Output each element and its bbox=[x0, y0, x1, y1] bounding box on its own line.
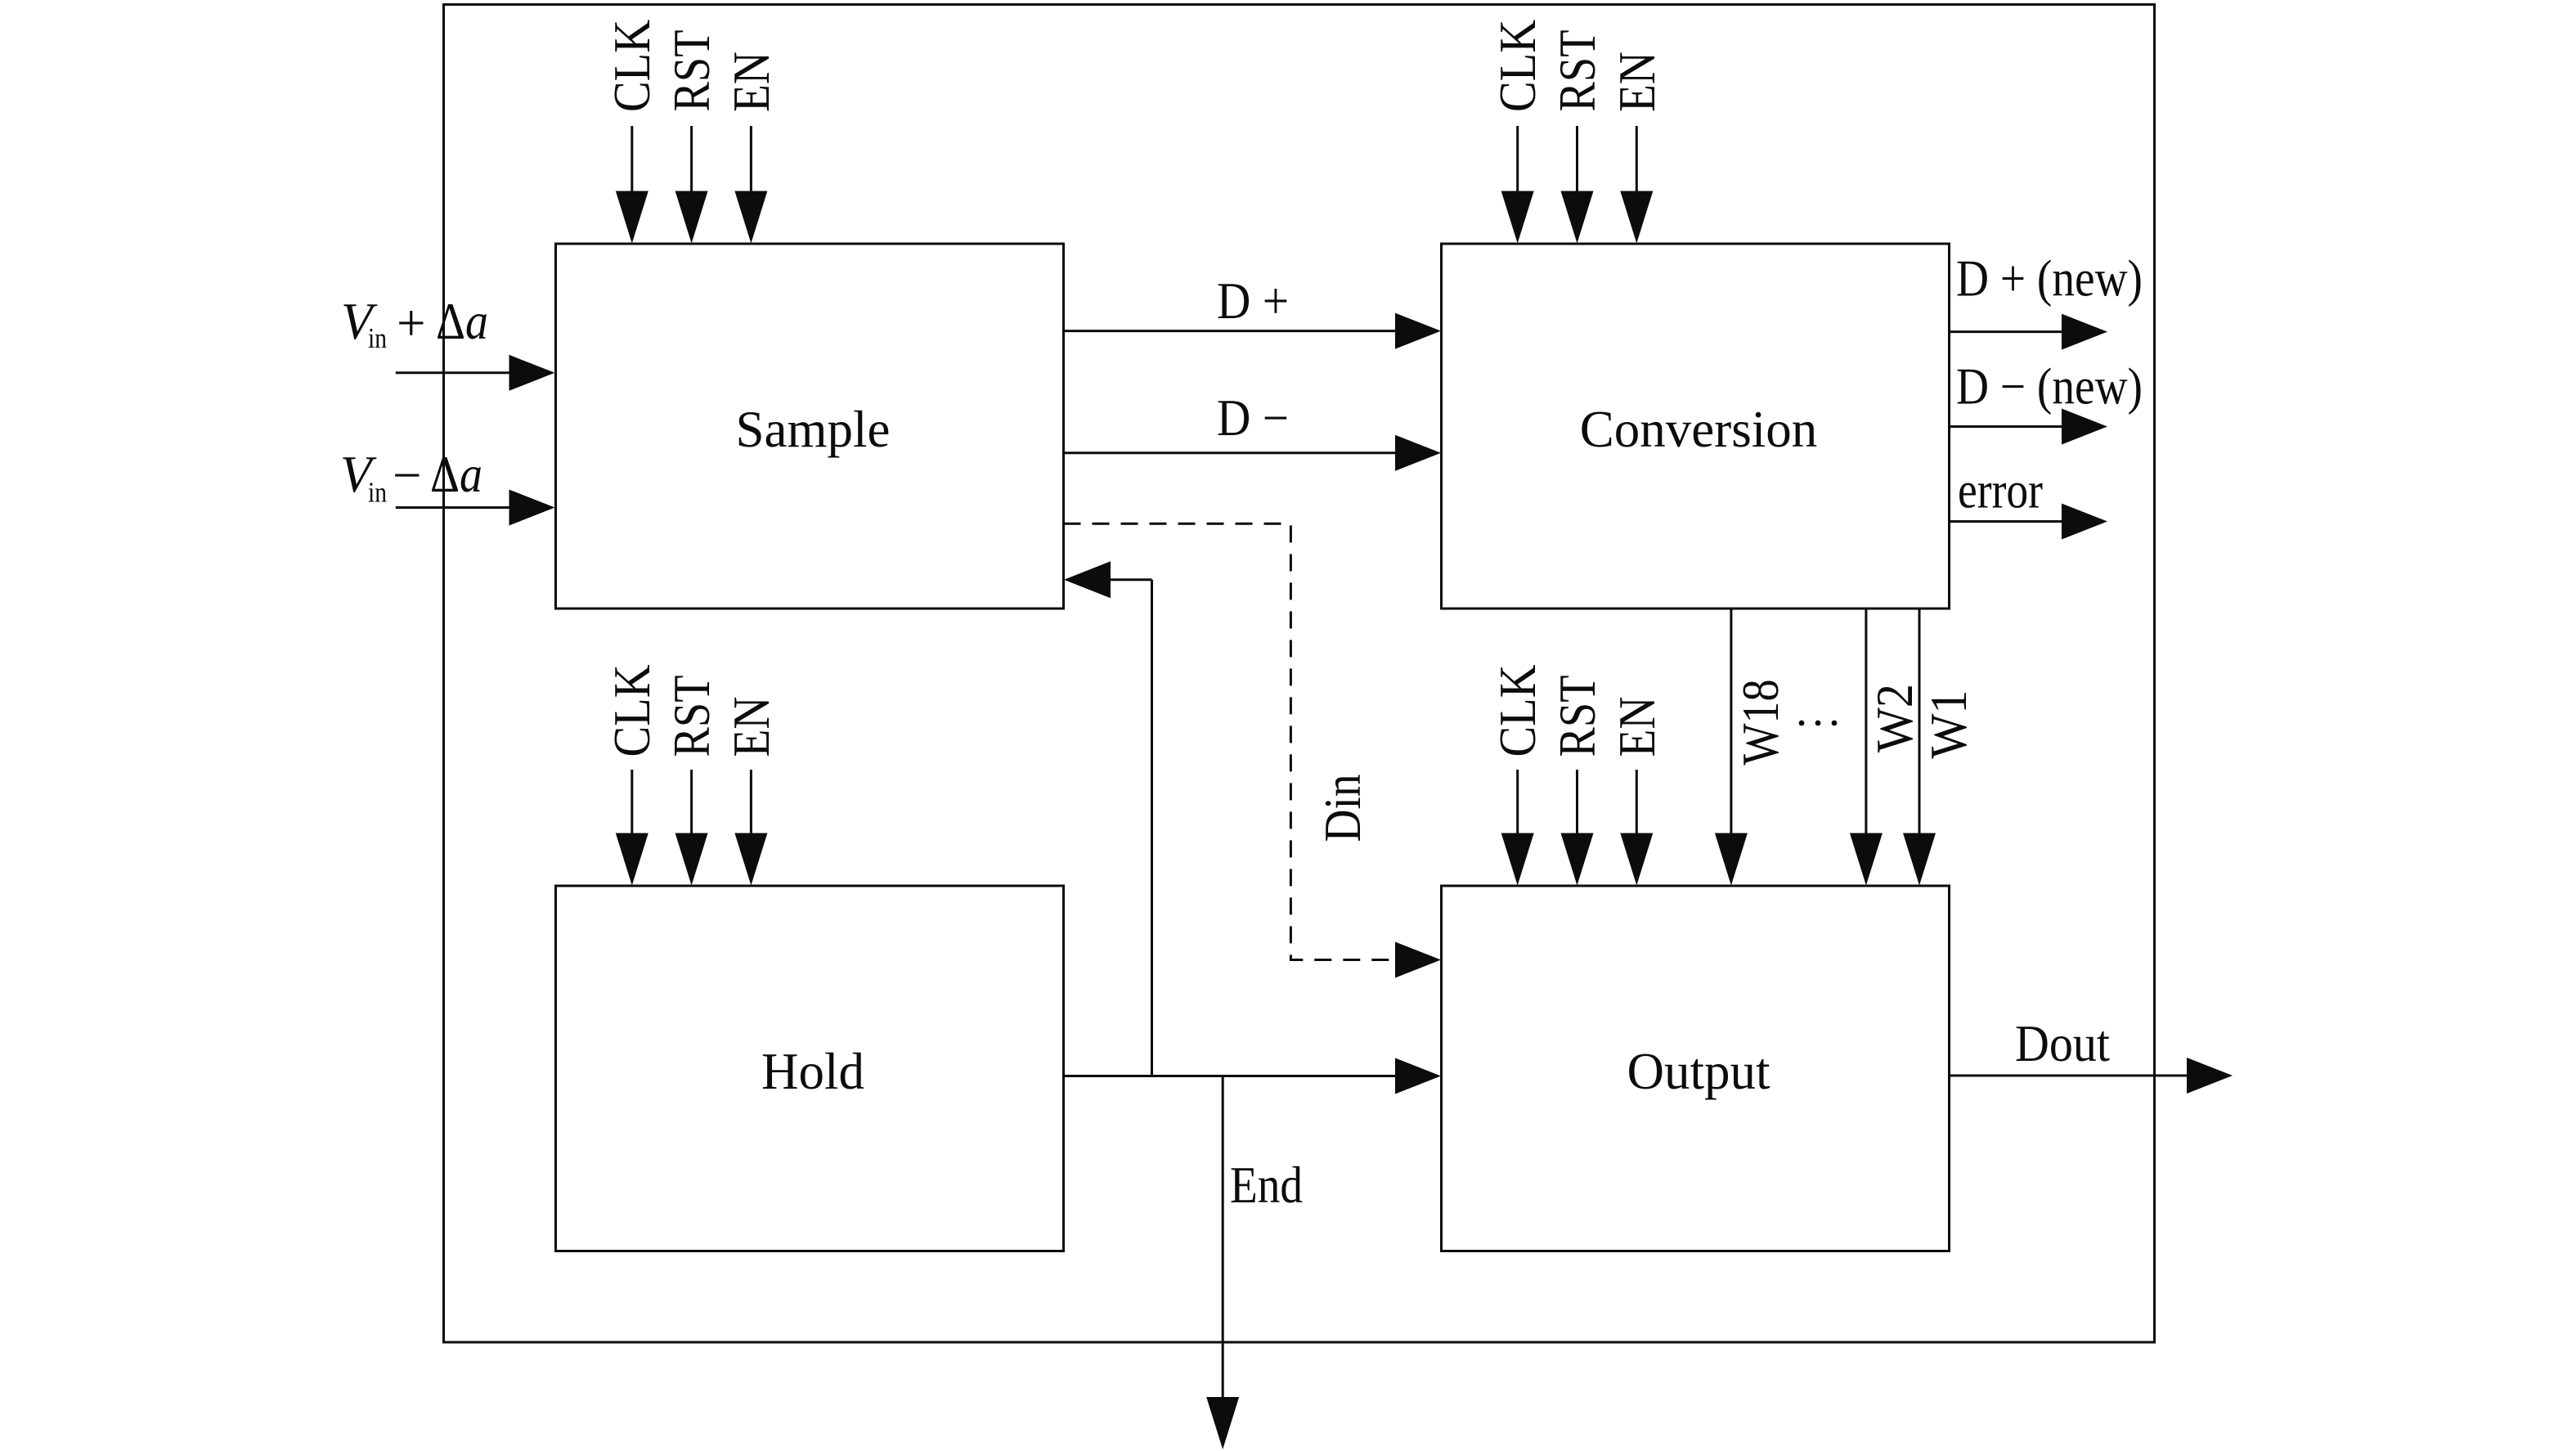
svg-text:EN: EN bbox=[1609, 697, 1666, 757]
wire feedback horizontal into Sample bbox=[1107, 578, 1152, 581]
svg-text:−: − bbox=[393, 447, 422, 504]
arrowhead CLK Sample bbox=[616, 191, 648, 244]
svg-text:Conversion: Conversion bbox=[1580, 401, 1817, 458]
wire EN into Hold bbox=[750, 770, 752, 837]
svg-text:error: error bbox=[1958, 462, 2043, 519]
wire RST into Conversion bbox=[1576, 126, 1578, 195]
arrowhead input Vin+da bbox=[509, 355, 555, 391]
wire EN into Sample bbox=[750, 126, 752, 195]
arrowhead W2 bbox=[1850, 833, 1883, 886]
svg-text:Δa: Δa bbox=[436, 293, 488, 350]
wire RST into Output bbox=[1576, 770, 1578, 837]
arrowhead error bbox=[2062, 504, 2107, 540]
svg-text:D +: D + bbox=[1217, 272, 1289, 330]
wire input Vin-da bbox=[396, 506, 513, 509]
wire Hold to Output bbox=[1064, 1075, 1396, 1077]
arrowhead W1 bbox=[1903, 833, 1936, 886]
arrowhead RST Output bbox=[1561, 833, 1594, 886]
svg-text:Dout: Dout bbox=[2015, 1015, 2110, 1072]
svg-text:EN: EN bbox=[1609, 52, 1666, 112]
wire feedback vertical bbox=[1151, 580, 1153, 1076]
svg-text:W1: W1 bbox=[1920, 690, 1977, 759]
svg-text:End: End bbox=[1230, 1157, 1303, 1214]
svg-text:RST: RST bbox=[1549, 676, 1606, 757]
wire EN into Output bbox=[1636, 770, 1638, 837]
wire W1 Conversion to Output bbox=[1919, 609, 1921, 837]
wire W18 Conversion to Output bbox=[1730, 609, 1732, 837]
wire Dout out of Output bbox=[1950, 1075, 2191, 1077]
arrowhead RST Hold bbox=[675, 833, 708, 886]
wire Din dashed Sample to Output bbox=[1064, 523, 1393, 959]
svg-text:W2: W2 bbox=[1866, 684, 1923, 752]
wire EN into Conversion bbox=[1636, 126, 1638, 195]
wire D-(new) out of Conversion bbox=[1950, 425, 2066, 428]
svg-text:D −: D − bbox=[1217, 389, 1289, 447]
arrowhead Din into Output bbox=[1395, 942, 1441, 978]
svg-text:EN: EN bbox=[723, 697, 780, 757]
svg-text:CLK: CLK bbox=[604, 20, 661, 112]
wire RST into Hold bbox=[690, 770, 693, 837]
arrowhead W18 bbox=[1715, 833, 1748, 886]
svg-text:D − (new): D − (new) bbox=[1956, 358, 2143, 416]
arrowhead EN Output bbox=[1620, 833, 1653, 886]
arrowhead EN Conversion bbox=[1620, 191, 1653, 244]
wire D+(new) out of Conversion bbox=[1950, 330, 2066, 333]
svg-text:Δa: Δa bbox=[430, 446, 482, 503]
junction dots of ellipsis between W18 and W2 bbox=[1799, 721, 1805, 726]
arrowhead End bbox=[1206, 1397, 1239, 1449]
svg-text:Hold: Hold bbox=[761, 1043, 864, 1100]
arrowhead CLK Conversion bbox=[1501, 191, 1534, 244]
wire CLK into Hold bbox=[631, 770, 633, 837]
arrowhead D+ bbox=[1395, 313, 1441, 349]
svg-text:RST: RST bbox=[663, 30, 720, 112]
svg-text:W18: W18 bbox=[1732, 680, 1789, 766]
svg-text:+: + bbox=[397, 294, 426, 352]
svg-text:in: in bbox=[368, 322, 387, 354]
block Sample bbox=[556, 244, 1064, 609]
block Output bbox=[1442, 886, 1950, 1251]
svg-text:RST: RST bbox=[1549, 30, 1606, 112]
arrowhead Dout bbox=[2187, 1058, 2233, 1094]
wire D- Sample to Conversion bbox=[1064, 451, 1399, 454]
wire CLK into Conversion bbox=[1516, 126, 1519, 195]
block Hold bbox=[556, 886, 1064, 1251]
arrowhead RST Conversion bbox=[1561, 191, 1594, 244]
svg-text:in: in bbox=[368, 477, 387, 509]
svg-text:EN: EN bbox=[723, 52, 780, 112]
wire CLK into Sample bbox=[631, 126, 633, 195]
wire D+ Sample to Conversion bbox=[1064, 330, 1399, 332]
block Conversion bbox=[1442, 244, 1950, 609]
wire W2 Conversion to Output bbox=[1865, 609, 1867, 837]
svg-text:CLK: CLK bbox=[1489, 665, 1546, 757]
svg-text:Sample: Sample bbox=[736, 401, 891, 458]
arrowhead input Vin-da bbox=[509, 490, 555, 526]
wire CLK into Output bbox=[1516, 770, 1519, 837]
arrowhead CLK Hold bbox=[616, 833, 648, 886]
outer boundary box bbox=[444, 5, 2155, 1343]
arrowhead RST Sample bbox=[675, 191, 708, 244]
arrowhead EN Hold bbox=[734, 833, 767, 886]
wire input Vin+da bbox=[396, 371, 513, 374]
arrowhead Hold to Output bbox=[1395, 1058, 1441, 1094]
arrowhead feedback into Sample bbox=[1064, 561, 1111, 598]
svg-text:RST: RST bbox=[663, 676, 720, 757]
arrowhead D+(new) bbox=[2062, 314, 2107, 350]
svg-text:CLK: CLK bbox=[1489, 20, 1546, 112]
wire End vertical bbox=[1222, 1076, 1224, 1401]
arrowhead CLK Output bbox=[1501, 833, 1534, 886]
arrowhead EN Sample bbox=[734, 191, 767, 244]
arrowhead D- bbox=[1395, 435, 1441, 471]
arrowhead D-(new) bbox=[2062, 409, 2107, 445]
svg-text:CLK: CLK bbox=[604, 665, 661, 757]
svg-text:Din: Din bbox=[1314, 775, 1371, 842]
wire RST into Sample bbox=[690, 126, 693, 195]
svg-text:D + (new): D + (new) bbox=[1956, 250, 2143, 308]
wire error out of Conversion bbox=[1950, 520, 2066, 523]
svg-text:Output: Output bbox=[1627, 1043, 1770, 1100]
